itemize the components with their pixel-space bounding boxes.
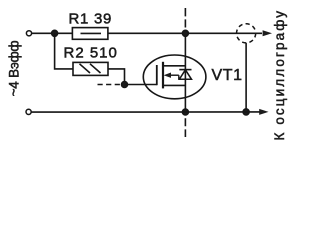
wire down to R2 (55, 33, 73, 69)
node junction drain top (182, 30, 188, 36)
terminal X2 bottom input (26, 109, 31, 114)
wire R2 right lead down (108, 69, 125, 85)
wire probe down (245, 43, 247, 112)
arrow to oscilloscope bottom (259, 109, 268, 115)
diode body cathode bar (179, 69, 191, 71)
transistor VT1 drain stub (163, 65, 185, 67)
wire drain-source vertical lead (184, 33, 186, 112)
node junction gate (122, 82, 128, 88)
transistor VT1 source stub (163, 84, 185, 86)
arrow to oscilloscope top (263, 30, 272, 36)
node junction top-left (52, 30, 58, 36)
wire top rail right of R1 (108, 32, 262, 34)
transistor VT1 channel (162, 62, 164, 89)
wire dashed gate continuation left (98, 84, 123, 86)
svg-text:R2 510: R2 510 (64, 45, 118, 62)
resistor R1 power mark 0.5W (81, 32, 102, 34)
resistor R2 (73, 62, 108, 75)
resistor R1 (72, 28, 108, 40)
transistor VT1 gate bar (156, 65, 158, 85)
transistor VT1 envelope (143, 55, 206, 99)
wire gate (125, 84, 157, 86)
wire dashed continuation up (184, 8, 186, 28)
transistor VT1 substrate arrowhead (164, 73, 171, 78)
svg-text:VT1: VT1 (212, 67, 243, 84)
transistor VT1 substrate link to diode (178, 75, 180, 79)
wire bottom rail (31, 111, 260, 113)
connector probe circle dashed (237, 24, 256, 43)
node junction bottom right (243, 109, 249, 115)
wire dashed continuation down (184, 118, 186, 137)
wire top rail (32, 32, 73, 34)
svg-text:R1 39: R1 39 (69, 10, 113, 27)
node junction source bottom (182, 109, 188, 115)
svg-text:К осциллографу: К осциллографу (272, 9, 287, 141)
resistor R2 power marks 0.125W (80, 64, 91, 73)
svg-text:~4 Вэфф: ~4 Вэфф (6, 40, 21, 96)
diode body triangle (179, 70, 191, 80)
terminal X1 top input (26, 31, 31, 36)
transistor VT1 substrate line (169, 74, 179, 76)
